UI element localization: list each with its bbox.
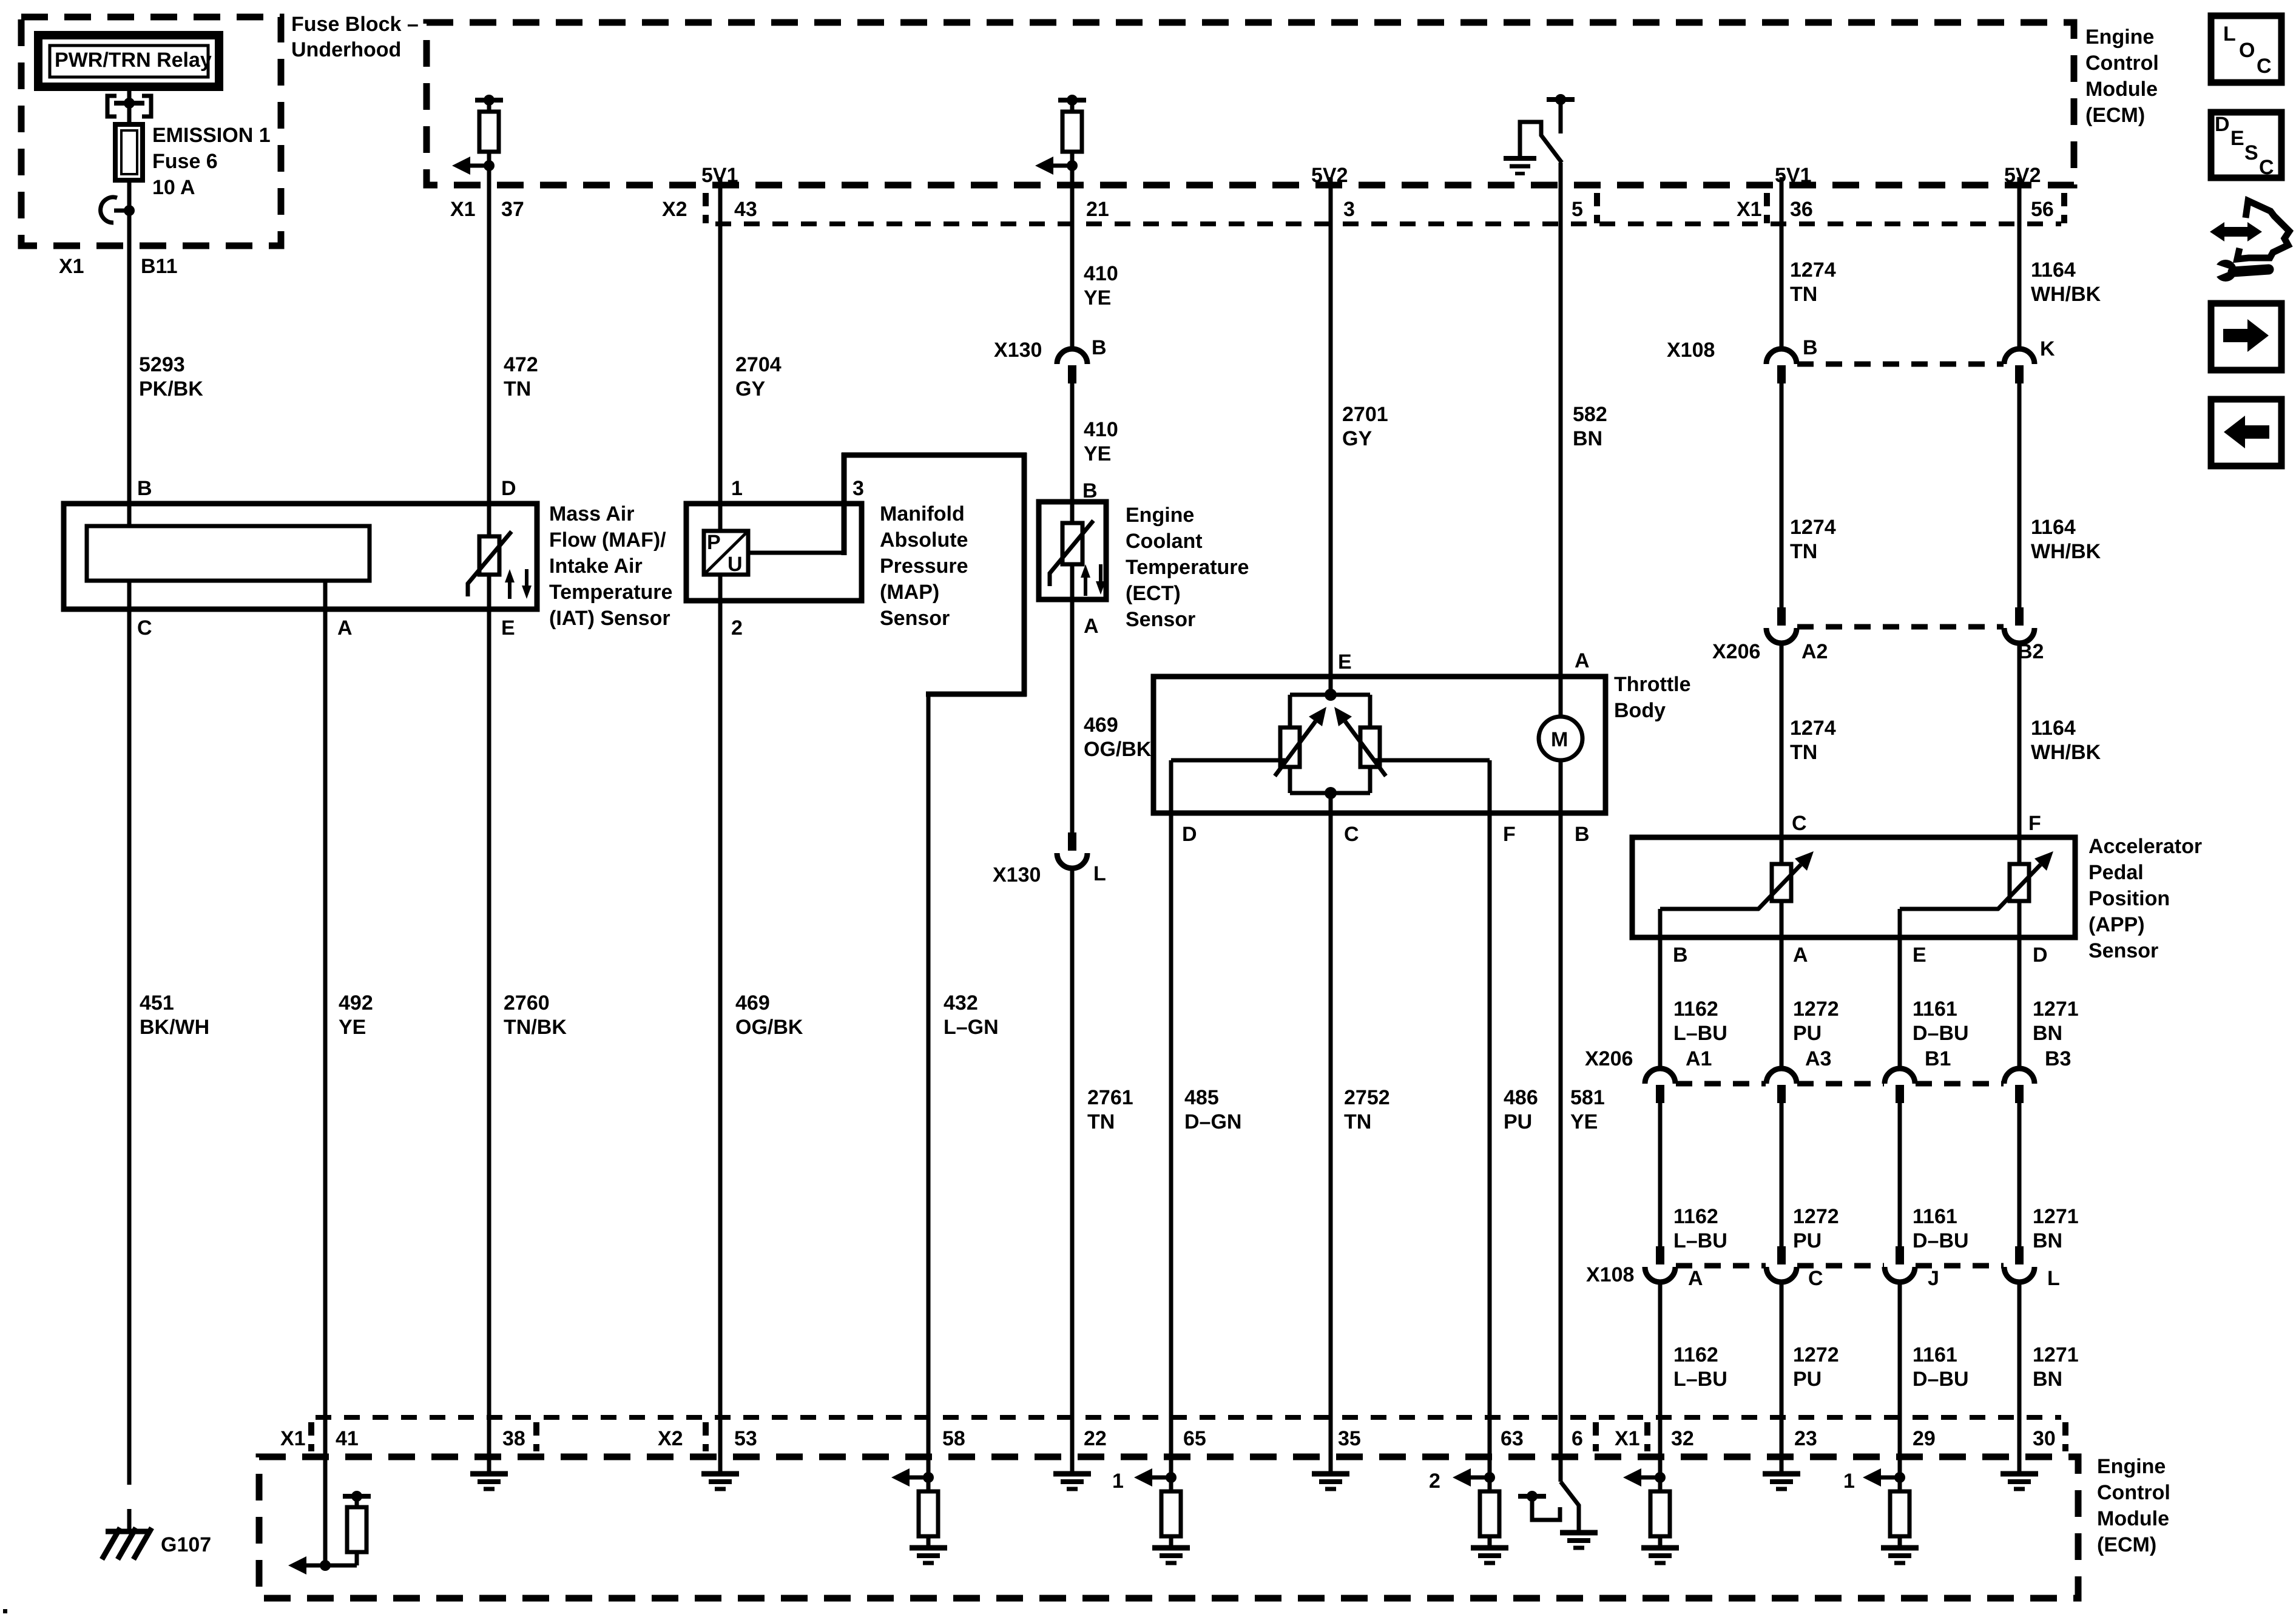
icon vehicle outline with arrow and wrench — [2210, 201, 2289, 282]
ECT pin letters — [1082, 479, 1099, 638]
connector X206 pin B3 — [2004, 1047, 2071, 1103]
svg-text:Underhood: Underhood — [291, 38, 401, 61]
APP sensor 2 wiper to E — [1900, 909, 1999, 937]
svg-text:B2: B2 — [2017, 640, 2044, 663]
svg-text:(ECM): (ECM) — [2085, 104, 2145, 127]
svg-text:D: D — [2215, 113, 2230, 136]
svg-text:Fuse Block –: Fuse Block – — [291, 13, 419, 36]
svg-text:3: 3 — [1343, 198, 1355, 221]
svg-text:BN: BN — [2033, 1022, 2062, 1045]
svg-text:(IAT) Sensor: (IAT) Sensor — [549, 607, 670, 630]
svg-text:X206: X206 — [1585, 1047, 1633, 1070]
svg-text:PU: PU — [1504, 1110, 1532, 1133]
PWR/TRN Relay — [38, 35, 219, 87]
ECM pin 23 ground — [1763, 1474, 1800, 1489]
svg-text:A: A — [1575, 649, 1590, 672]
svg-text:C: C — [2257, 55, 2272, 78]
ECM internal switch pin 5 — [1504, 94, 1575, 185]
svg-text:469: 469 — [1084, 714, 1118, 737]
IAT bidirectional arrows — [505, 569, 532, 599]
svg-text:L–BU: L–BU — [1673, 1022, 1727, 1045]
svg-text:F: F — [1503, 823, 1516, 846]
connector X108 pin A — [1586, 1246, 1703, 1290]
svg-text:D–BU: D–BU — [1913, 1368, 1969, 1391]
svg-text:2: 2 — [731, 616, 743, 640]
svg-text:X2: X2 — [662, 198, 687, 221]
svg-text:21: 21 — [1086, 198, 1109, 221]
svg-text:B: B — [1673, 944, 1688, 967]
throttle TPS bridge bottom — [1290, 767, 1370, 813]
svg-text:BN: BN — [2033, 1368, 2062, 1391]
svg-text:A2: A2 — [1801, 640, 1828, 663]
ECT thermistor — [1049, 521, 1093, 586]
svg-text:Temperature: Temperature — [549, 581, 672, 604]
wire 1274 TN X108 B to X206 A2 — [1781, 383, 1836, 607]
wire 5293 PK/BK — [129, 246, 203, 504]
svg-text:YE: YE — [1084, 442, 1111, 465]
svg-text:E: E — [2230, 127, 2244, 150]
svg-text:M: M — [1551, 728, 1568, 751]
ECM driver cell pin 21 — [1035, 95, 1086, 185]
svg-text:A1: A1 — [1686, 1047, 1712, 1070]
svg-text:Sensor: Sensor — [2088, 939, 2158, 962]
svg-text:L: L — [1093, 862, 1106, 885]
svg-text:5V2: 5V2 — [2004, 164, 2041, 187]
svg-text:TN: TN — [1790, 283, 1817, 306]
icon back arrow box — [2211, 399, 2281, 466]
svg-text:GY: GY — [1342, 427, 1372, 450]
ECM pin 30 ground — [2001, 1474, 2038, 1489]
svg-text:Accelerator: Accelerator — [2088, 835, 2202, 858]
icon LOC box — [2211, 16, 2281, 83]
svg-text:B: B — [1092, 336, 1107, 359]
Engine Control Module (ECM) bottom dashed box — [259, 1455, 2170, 1598]
svg-text:1162: 1162 — [1673, 998, 1718, 1021]
svg-text:X1: X1 — [1737, 198, 1762, 221]
wire 1161 D-BU APP E to X206 B1 — [1900, 937, 1969, 1070]
svg-text:B11: B11 — [141, 255, 178, 278]
wire 486 PU throttle F to pin 63 — [1490, 813, 1538, 1477]
wire 472 TN pin37 to MAF D — [489, 185, 538, 536]
svg-text:1161: 1161 — [1913, 1205, 1957, 1228]
svg-text:TN/BK: TN/BK — [504, 1016, 567, 1039]
svg-text:PU: PU — [1793, 1229, 1822, 1252]
svg-text:TN: TN — [1790, 741, 1817, 764]
Engine Coolant Temperature (ECT) sensor box — [1039, 502, 1249, 631]
ECT bidirectional arrows — [1081, 564, 1106, 596]
wire 1164 WH/BK X108 K to X206 B2 — [2019, 383, 2101, 607]
wire 2752 TN throttle C to pin 35 — [1331, 813, 1390, 1473]
bottom pin labels — [280, 1427, 2056, 1450]
svg-text:(ECM): (ECM) — [2097, 1533, 2156, 1556]
connector X108 pin C — [1766, 1246, 1823, 1290]
svg-text:1164: 1164 — [2031, 258, 2076, 282]
svg-text:Flow (MAF)/: Flow (MAF)/ — [549, 528, 666, 552]
svg-text:Control: Control — [2097, 1481, 2170, 1504]
connector X206 pin A2 — [1712, 607, 1828, 663]
svg-text:469: 469 — [735, 991, 770, 1014]
svg-text:X1: X1 — [450, 198, 476, 221]
svg-text:S: S — [2244, 141, 2258, 164]
wire 1271 BN X206 B3 to X108 L — [2019, 1102, 2079, 1252]
APP pin letters — [1673, 812, 2048, 967]
svg-text:L–GN: L–GN — [944, 1016, 999, 1039]
svg-text:Manifold: Manifold — [880, 502, 965, 525]
svg-text:WH/BK: WH/BK — [2031, 283, 2101, 306]
svg-text:23: 23 — [1794, 1427, 1817, 1450]
APP sensor 2 potentiometer — [1997, 837, 2053, 937]
connector X108 pin J — [1885, 1246, 1939, 1290]
svg-text:X1: X1 — [59, 255, 84, 278]
ECM pin 35 ground — [1312, 1474, 1349, 1489]
svg-text:38: 38 — [502, 1427, 525, 1450]
svg-text:A: A — [1793, 944, 1808, 967]
svg-text:1: 1 — [731, 477, 743, 500]
svg-text:D: D — [501, 477, 516, 500]
svg-text:C: C — [137, 616, 152, 640]
svg-text:1274: 1274 — [1790, 258, 1836, 282]
wire 581 YE throttle B to pin 6 — [1561, 813, 1605, 1482]
svg-text:B: B — [137, 477, 152, 500]
wire 2701 GY pin3 to throttle E — [1331, 177, 1388, 695]
svg-text:32: 32 — [1671, 1427, 1694, 1450]
icon forward arrow box — [2211, 303, 2281, 370]
svg-text:36: 36 — [1790, 198, 1813, 221]
svg-text:5293: 5293 — [139, 353, 185, 376]
svg-text:6: 6 — [1572, 1427, 1583, 1450]
ECM pin 38 ground — [470, 1473, 508, 1489]
svg-text:65: 65 — [1183, 1427, 1206, 1450]
svg-text:X130: X130 — [994, 339, 1042, 362]
Throttle Body box — [1153, 673, 1691, 813]
svg-text:2752: 2752 — [1344, 1086, 1390, 1109]
svg-text:29: 29 — [1913, 1427, 1936, 1450]
svg-text:3: 3 — [853, 477, 864, 500]
svg-text:1161: 1161 — [1913, 1343, 1957, 1366]
svg-text:X206: X206 — [1712, 640, 1760, 663]
wire 1274 TN pin36 to X108 B — [1781, 177, 1836, 350]
wire 1272 PU APP A to X206 A3 — [1781, 937, 1839, 1070]
svg-text:1164: 1164 — [2031, 516, 2076, 539]
svg-text:OG/BK: OG/BK — [1084, 738, 1152, 761]
svg-text:L–BU: L–BU — [1673, 1229, 1727, 1252]
svg-text:Engine: Engine — [2097, 1455, 2166, 1478]
svg-text:1271: 1271 — [2033, 998, 2079, 1021]
APP sensor 1 wiper to B — [1660, 909, 1759, 937]
svg-text:BK/WH: BK/WH — [140, 1016, 209, 1039]
svg-text:Throttle: Throttle — [1614, 673, 1691, 696]
svg-text:TN: TN — [504, 377, 531, 400]
bottom connector separators — [311, 1422, 2065, 1451]
throttle pin letters — [1182, 649, 1590, 846]
svg-text:22: 22 — [1084, 1427, 1107, 1450]
svg-text:L: L — [2047, 1267, 2060, 1290]
svg-text:1272: 1272 — [1793, 1343, 1839, 1366]
wire 582 BN pin5 to throttle A — [1561, 185, 1607, 717]
wire 410 YE pin21 to X130 B — [1072, 185, 1118, 350]
svg-text:A: A — [1084, 615, 1099, 638]
svg-text:X1: X1 — [1615, 1427, 1640, 1450]
fuse block exit hook — [101, 197, 135, 223]
svg-text:YE: YE — [1084, 286, 1111, 309]
svg-text:OG/BK: OG/BK — [735, 1016, 803, 1039]
svg-text:2704: 2704 — [735, 353, 782, 376]
connector X108 pin K — [2004, 337, 2055, 383]
svg-text:BN: BN — [1573, 427, 1602, 450]
svg-text:A: A — [1688, 1267, 1703, 1290]
svg-text:1: 1 — [1843, 1470, 1855, 1493]
wire 2704 GY pin43 to MAP 1 — [720, 177, 782, 533]
wire 2760 TN/BK MAF E to pin 38 — [489, 575, 567, 1473]
svg-text:X130: X130 — [993, 863, 1041, 886]
svg-text:30: 30 — [2033, 1427, 2056, 1450]
svg-text:2760: 2760 — [504, 991, 550, 1014]
svg-text:410: 410 — [1084, 262, 1118, 285]
svg-text:2701: 2701 — [1342, 403, 1388, 426]
svg-text:Position: Position — [2088, 887, 2170, 910]
svg-text:(APP): (APP) — [2088, 913, 2145, 936]
svg-text:PK/BK: PK/BK — [139, 377, 203, 400]
svg-text:(ECT): (ECT) — [1126, 582, 1181, 605]
svg-text:492: 492 — [339, 991, 373, 1014]
ECM pin 63 cell: arrow 2, resistor, ground — [1429, 1456, 1508, 1563]
svg-text:X108: X108 — [1586, 1263, 1634, 1286]
svg-text:582: 582 — [1573, 403, 1607, 426]
svg-text:35: 35 — [1338, 1427, 1361, 1450]
wire 410 YE X130 B to ECT B — [1072, 383, 1118, 523]
svg-text:X108: X108 — [1667, 339, 1715, 362]
ground G107 — [102, 1528, 211, 1559]
svg-text:L: L — [2223, 22, 2236, 46]
svg-text:B3: B3 — [2045, 1047, 2071, 1070]
connector X108 pin L — [2004, 1246, 2060, 1290]
wire fuse to B11 — [127, 180, 132, 246]
svg-text:YE: YE — [339, 1016, 366, 1039]
wire 1161 D-BU X206 B1 to X108 J — [1900, 1102, 1969, 1252]
top connector fine-dash row — [715, 221, 2061, 226]
svg-text:1271: 1271 — [2033, 1343, 2079, 1366]
MAP P/U transducer square — [704, 531, 748, 576]
svg-text:Pedal: Pedal — [2088, 861, 2144, 884]
connector X206 pin B2 — [2004, 607, 2044, 663]
svg-text:485: 485 — [1184, 1086, 1219, 1109]
svg-text:A: A — [337, 616, 353, 640]
svg-text:E: E — [501, 616, 515, 640]
svg-text:D–BU: D–BU — [1913, 1022, 1969, 1045]
svg-text:581: 581 — [1570, 1086, 1605, 1109]
svg-text:Intake Air: Intake Air — [549, 555, 643, 578]
throttle TPS1 wiper to D — [1171, 760, 1285, 813]
svg-text:Sensor: Sensor — [1126, 608, 1195, 631]
Fuse Block - Underhood dashed box — [21, 13, 419, 246]
svg-text:43: 43 — [734, 198, 757, 221]
wire 2761 TN X130 L to pin 22 — [1072, 867, 1133, 1473]
svg-text:TN: TN — [1344, 1110, 1371, 1133]
ECM pin 32 cell: arrow, resistor, ground — [1623, 1456, 1679, 1563]
svg-text:O: O — [2239, 39, 2255, 62]
wire 1272 PU X108 C to pin 23 — [1781, 1281, 1839, 1473]
connector X206 pin B1 — [1885, 1047, 1951, 1103]
svg-text:1272: 1272 — [1793, 998, 1839, 1021]
wire 1162 L-BU X108 A to pin 32 — [1660, 1281, 1727, 1477]
relay output terminal brackets — [107, 96, 151, 116]
node X1 B11 — [59, 255, 178, 278]
svg-text:472: 472 — [504, 353, 538, 376]
wire 492 YE MAF A to pin 41 — [325, 581, 373, 1565]
svg-text:Absolute: Absolute — [880, 528, 968, 552]
svg-text:D–GN: D–GN — [1184, 1110, 1241, 1133]
connector X206 pin A3 — [1766, 1047, 1831, 1103]
throttle position sensor 2 potentiometer — [1334, 707, 1386, 776]
APP sensor 1 potentiometer — [1758, 837, 1814, 937]
svg-text:486: 486 — [1504, 1086, 1538, 1109]
wire 1274 TN X206 A2 to APP C — [1781, 642, 1836, 864]
svg-text:C: C — [1808, 1267, 1823, 1290]
wire 1161 D-BU X108 J to pin 29 — [1900, 1281, 1969, 1477]
wire 432 L-GN MAP 3 jog to pin 58 — [748, 453, 1027, 1477]
svg-text:WH/BK: WH/BK — [2031, 540, 2101, 563]
svg-text:G107: G107 — [161, 1533, 211, 1556]
svg-text:410: 410 — [1084, 418, 1118, 441]
svg-text:58: 58 — [942, 1427, 965, 1450]
svg-text:X2: X2 — [658, 1427, 683, 1450]
connector X206 pin A1 — [1585, 1047, 1712, 1103]
svg-text:K: K — [2040, 337, 2055, 360]
svg-text:1274: 1274 — [1790, 516, 1836, 539]
svg-text:B: B — [1082, 479, 1098, 502]
IAT thermistor — [467, 532, 512, 596]
svg-text:5: 5 — [1572, 198, 1583, 221]
svg-text:Module: Module — [2085, 78, 2158, 101]
top connector separators — [703, 193, 709, 223]
svg-text:1271: 1271 — [2033, 1205, 2079, 1228]
ECM driver cell pin 37 — [452, 95, 503, 185]
svg-text:B1: B1 — [1925, 1047, 1951, 1070]
X108 row dashed links — [1676, 1263, 2004, 1269]
svg-text:Mass Air: Mass Air — [549, 502, 634, 525]
X206 row dashed links — [1676, 1081, 2004, 1087]
svg-text:Sensor: Sensor — [880, 607, 950, 630]
svg-text:D: D — [2033, 944, 2048, 967]
wire 1272 PU X206 A3 to X108 C — [1781, 1102, 1839, 1252]
wire 1271 BN X108 L to pin 30 — [2019, 1281, 2079, 1473]
wire 469 OG/BK ECT A to X130 L — [1072, 564, 1152, 834]
svg-text:Pressure: Pressure — [880, 555, 968, 578]
bottom connector fine-dash row — [316, 1415, 2061, 1420]
svg-text:PU: PU — [1793, 1022, 1822, 1045]
ECM pin 41 cell: arrow and pull-up resistor — [288, 1473, 371, 1575]
ECM pin 29 cell: arrow 1, resistor, ground — [1843, 1456, 1919, 1563]
wire 469 OG/BK MAP 2 to pin 53 — [720, 575, 803, 1473]
svg-text:Coolant: Coolant — [1126, 530, 1203, 553]
svg-text:37: 37 — [501, 198, 524, 221]
svg-text:TN: TN — [1790, 540, 1817, 563]
svg-text:Body: Body — [1614, 699, 1666, 722]
svg-text:Temperature: Temperature — [1126, 556, 1249, 579]
svg-text:Engine: Engine — [2085, 25, 2154, 49]
svg-text:1162: 1162 — [1673, 1343, 1718, 1366]
svg-text:1: 1 — [1112, 1470, 1124, 1493]
svg-text:PU: PU — [1793, 1368, 1822, 1391]
wire 451 BK/WH MAF C to G107 — [129, 581, 209, 1529]
svg-text:2761: 2761 — [1087, 1086, 1133, 1109]
top pin labels — [450, 198, 2054, 221]
throttle TPS bridge top — [1290, 689, 1370, 727]
svg-text:X1: X1 — [280, 1427, 306, 1450]
svg-text:10 A: 10 A — [152, 176, 195, 199]
svg-text:D: D — [1182, 823, 1197, 846]
MAF internal wires — [129, 504, 325, 609]
svg-text:(MAP): (MAP) — [880, 581, 939, 604]
svg-text:1162: 1162 — [1673, 1205, 1718, 1228]
svg-text:F: F — [2028, 812, 2041, 835]
svg-text:WH/BK: WH/BK — [2031, 741, 2101, 764]
ECM pin 65 cell: arrow 1, resistor, ground — [1112, 1456, 1190, 1563]
svg-text:J: J — [1928, 1267, 1939, 1290]
svg-text:53: 53 — [734, 1427, 757, 1450]
ECM pin 22 ground — [1053, 1474, 1091, 1489]
svg-text:41: 41 — [336, 1427, 359, 1450]
icon DESC box — [2211, 112, 2281, 179]
svg-text:Fuse 6: Fuse 6 — [152, 150, 218, 173]
svg-text:P: P — [707, 531, 721, 554]
Accelerator Pedal Position (APP) sensor box — [1632, 835, 2202, 962]
wire 1164 WH/BK X206 B2 to APP F — [2019, 642, 2101, 864]
svg-text:C: C — [1344, 823, 1359, 846]
page corner mark — [3, 1609, 7, 1613]
svg-text:B: B — [1575, 823, 1590, 846]
svg-text:C: C — [1792, 812, 1807, 835]
svg-text:PWR/TRN Relay: PWR/TRN Relay — [55, 49, 212, 72]
X206 row dashed link — [1797, 624, 2004, 630]
svg-text:U: U — [728, 553, 743, 576]
svg-text:EMISSION 1: EMISSION 1 — [152, 124, 271, 147]
connector X108 pin B — [1667, 336, 1818, 383]
svg-text:Control: Control — [2085, 52, 2159, 75]
fuse EMISSION 1 Fuse 6 10 A — [115, 124, 271, 199]
wire 1162 L-BU APP B to X206 A1 — [1660, 937, 1727, 1070]
X108 row dashed link — [1797, 362, 2004, 367]
svg-text:TN: TN — [1087, 1110, 1115, 1133]
ECM pin 53 ground — [701, 1474, 739, 1489]
wire relay to fuse — [127, 87, 132, 124]
svg-text:B: B — [1803, 336, 1818, 359]
svg-text:1161: 1161 — [1913, 998, 1957, 1021]
throttle position sensor 1 potentiometer — [1275, 707, 1326, 776]
throttle TPS2 wiper to F — [1375, 760, 1490, 813]
svg-text:GY: GY — [735, 377, 765, 400]
svg-text:451: 451 — [140, 991, 174, 1014]
ECM pin 58 cell: arrow, resistor, ground — [891, 1456, 947, 1563]
svg-text:Engine: Engine — [1126, 504, 1194, 527]
svg-text:Module: Module — [2097, 1507, 2169, 1530]
wire 485 D-GN throttle D to pin 65 — [1171, 813, 1241, 1477]
svg-text:E: E — [1338, 650, 1352, 673]
svg-text:E: E — [1913, 944, 1926, 967]
Engine Control Module (ECM) top dashed box — [427, 22, 2159, 185]
MAF pin letters — [137, 477, 516, 640]
wire 1162 L-BU X206 A1 to X108 A — [1660, 1102, 1727, 1252]
throttle motor M — [1539, 717, 1582, 813]
svg-text:56: 56 — [2031, 198, 2054, 221]
svg-text:A3: A3 — [1805, 1047, 1831, 1070]
svg-text:1164: 1164 — [2031, 717, 2076, 740]
connector X130 pin L — [993, 832, 1106, 886]
svg-text:63: 63 — [1501, 1427, 1524, 1450]
Mass Air Flow (MAF) / IAT sensor box — [64, 502, 672, 630]
wire 1164 WH/BK pin56 to X108 K — [2019, 177, 2101, 350]
svg-text:YE: YE — [1570, 1110, 1598, 1133]
